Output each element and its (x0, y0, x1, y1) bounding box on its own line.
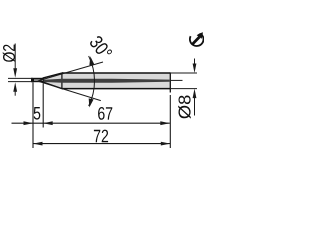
top-right icon arrowhead (197, 32, 203, 39)
top-right icon arrow shaft (192, 37, 199, 44)
dia2 extension line bottom (8, 81, 33, 83)
shaft center line stub (171, 79, 183, 81)
dark center shading band (44, 79, 170, 83)
pin center highlight (34, 79, 43, 81)
30deg upper angle ray (38, 62, 104, 81)
30deg lower angle ray (38, 81, 101, 101)
carbide pin tip (31, 78, 43, 82)
30deg arc arrowhead top (89, 56, 94, 65)
top-right icon circle arc (190, 34, 204, 46)
dia2 upper arrowhead (13, 68, 17, 78)
dia8 upper arrowhead (193, 64, 197, 74)
cone-shaft junction line (61, 73, 63, 88)
shaft right end edge (169, 72, 171, 92)
dia8 dimension line lower segment (194, 93, 196, 116)
5 label text (34, 107, 41, 120)
67 left arrowhead (43, 121, 53, 125)
dia2 extension line top (8, 77, 33, 79)
72 label text (94, 130, 108, 143)
30deg arc arrowhead bottom (89, 98, 94, 107)
72 right arrowhead (161, 142, 171, 146)
dia8 lower arrowhead (193, 89, 197, 99)
right extension line for 5 (42, 83, 44, 127)
dia2 label text (3, 45, 16, 62)
dia2 lower arrowhead (13, 82, 17, 92)
72 left arrowhead (33, 142, 43, 146)
30deg arc (89, 56, 95, 106)
dia2 dimension line upper segment (14, 44, 16, 73)
67 right arrowhead (160, 121, 170, 125)
cylindrical shaft body (62, 73, 170, 89)
67 label text (98, 107, 112, 120)
30deg label text (89, 35, 113, 61)
72 dimension line (33, 143, 170, 145)
dia2 dimension line lower segment (14, 88, 16, 96)
shaft bottom edge (62, 88, 170, 90)
right extension line for 67 and 72 (169, 95, 171, 148)
left extension line for 5 and 72 (32, 82, 34, 148)
dia8 top extension line (171, 72, 197, 74)
dia8 label text (178, 96, 191, 119)
5 outside arrowhead (24, 121, 34, 125)
shaft top edge (62, 72, 170, 74)
5/67 dimension line (12, 122, 170, 124)
dia8 dimension line upper segment (194, 59, 196, 69)
cone section of contact point (43, 73, 62, 89)
dia8 bottom extension line (171, 88, 197, 90)
